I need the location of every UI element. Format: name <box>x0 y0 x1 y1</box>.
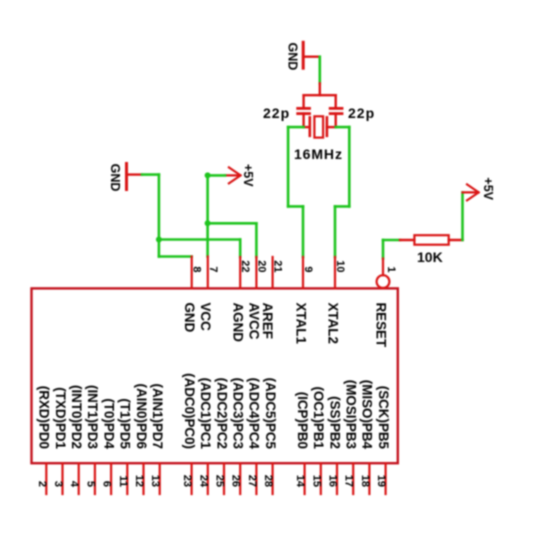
svg-text:RESET: RESET <box>373 303 388 348</box>
svg-text:16: 16 <box>327 475 339 487</box>
svg-text:4: 4 <box>68 481 80 488</box>
pin 21 stub <box>272 257 274 288</box>
pin 15 stub <box>320 463 322 494</box>
svg-text:22: 22 <box>239 260 251 272</box>
pin 24 stub <box>207 463 209 494</box>
junction dot GND net <box>156 237 162 243</box>
svg-text:1: 1 <box>385 266 397 272</box>
pin 23 stub <box>191 463 193 494</box>
junction dot +5V corner <box>205 172 211 178</box>
pin 3 stub <box>61 463 63 494</box>
svg-text:VCC: VCC <box>198 303 213 332</box>
svg-text:(ADC5)PC5: (ADC5)PC5 <box>263 378 278 450</box>
capacitor C2 22p (right) <box>330 108 342 127</box>
svg-text:(T1)PD5: (T1)PD5 <box>118 398 133 449</box>
svg-text:9: 9 <box>302 266 314 272</box>
svg-text:18: 18 <box>359 475 371 487</box>
svg-text:2: 2 <box>36 481 48 487</box>
svg-text:3: 3 <box>52 481 64 487</box>
pin 8 stub <box>191 257 193 289</box>
svg-text:(SCK)PB5: (SCK)PB5 <box>376 386 391 450</box>
pin 13 stub <box>159 463 161 494</box>
pin 26 stub <box>239 463 241 494</box>
svg-text:(ADC4)PC4: (ADC4)PC4 <box>247 378 262 450</box>
svg-text:(MOSI)PB3: (MOSI)PB3 <box>344 380 359 449</box>
svg-text:23: 23 <box>181 475 193 487</box>
pin 10 stub <box>334 257 336 288</box>
wire R1 to +5V <box>461 192 464 240</box>
pin 25 stub <box>223 463 225 494</box>
svg-text:10: 10 <box>334 260 346 272</box>
pin 5 stub <box>94 463 96 494</box>
svg-text:6: 6 <box>101 481 113 487</box>
svg-text:22p: 22p <box>348 105 375 121</box>
svg-text:(OC1)PB1: (OC1)PB1 <box>311 386 326 449</box>
svg-text:AVCC: AVCC <box>247 303 262 340</box>
svg-text:(MISO)PB4: (MISO)PB4 <box>360 380 375 450</box>
pin 14 stub <box>304 463 306 494</box>
crystal Q1 16MHz <box>304 116 336 137</box>
svg-text:26: 26 <box>230 475 242 487</box>
pin 22 stub <box>239 257 241 288</box>
pin 6 stub <box>110 463 112 494</box>
pin 16 stub <box>336 463 338 494</box>
svg-text:15: 15 <box>310 475 322 487</box>
svg-text:+5V: +5V <box>241 164 255 187</box>
svg-text:19: 19 <box>375 475 387 487</box>
svg-text:21: 21 <box>272 260 284 272</box>
capacitor C1 22p (left) <box>298 108 310 127</box>
svg-text:(INT1)PD3: (INT1)PD3 <box>85 385 100 449</box>
svg-text:13: 13 <box>149 475 161 487</box>
pin 28 stub <box>272 463 274 494</box>
svg-text:10K: 10K <box>417 249 443 265</box>
pin 11 stub <box>126 463 128 494</box>
wire crystal GND drop <box>318 57 321 84</box>
ground GND (left supply symbol) <box>108 164 142 192</box>
wire GND-left net <box>142 175 240 257</box>
wire XTAL1 net <box>288 127 304 257</box>
resistor R1 10K <box>400 235 463 245</box>
pin 27 stub <box>255 463 257 494</box>
svg-text:+5V: +5V <box>481 177 495 200</box>
svg-text:XTAL1: XTAL1 <box>293 303 308 345</box>
wire RESET net <box>383 240 400 259</box>
svg-text:(ADC0)PC0): (ADC0)PC0) <box>182 373 197 449</box>
pin 1 stub with inversion circle <box>382 259 384 276</box>
pin 19 stub <box>385 463 387 494</box>
svg-text:24: 24 <box>197 475 209 488</box>
wire XTAL2 net <box>335 127 349 257</box>
svg-text:8: 8 <box>191 266 203 272</box>
junction dot +5V branch <box>205 220 211 226</box>
pin 4 stub <box>78 463 80 494</box>
svg-text:28: 28 <box>262 475 274 487</box>
power +5V (right supply symbol) <box>463 177 496 200</box>
svg-text:20: 20 <box>255 260 267 272</box>
svg-text:27: 27 <box>246 475 258 487</box>
ground GND (crystal supply symbol) <box>286 42 320 70</box>
svg-text:XTAL2: XTAL2 <box>325 303 340 344</box>
svg-text:11: 11 <box>117 475 129 487</box>
svg-text:14: 14 <box>294 475 306 488</box>
pin 12 stub <box>142 463 144 494</box>
IC U1 body <box>32 288 398 463</box>
svg-text:5: 5 <box>84 481 96 487</box>
svg-text:AREF: AREF <box>260 303 275 339</box>
svg-text:(AIN1)PD7: (AIN1)PD7 <box>150 384 165 449</box>
svg-text:16MHz: 16MHz <box>294 146 343 162</box>
svg-text:AGND: AGND <box>231 303 246 343</box>
svg-text:(ADC1)PC1: (ADC1)PC1 <box>198 378 213 450</box>
pin 18 stub <box>368 463 370 494</box>
pin 9 stub <box>302 257 304 288</box>
svg-text:GND: GND <box>286 43 300 71</box>
svg-text:(RXD)PD0: (RXD)PD0 <box>37 386 52 449</box>
svg-text:17: 17 <box>343 475 355 487</box>
pin 17 stub <box>352 463 354 494</box>
svg-text:(ADC2)PC2: (ADC2)PC2 <box>214 378 229 449</box>
svg-text:22p: 22p <box>263 105 290 121</box>
power +5V (left supply symbol) <box>225 164 255 187</box>
svg-text:(ICP)PB0: (ICP)PB0 <box>295 392 310 449</box>
capacitor network rails <box>304 83 336 107</box>
svg-text:(AIN0)PD6: (AIN0)PD6 <box>134 384 149 449</box>
svg-text:GND: GND <box>182 303 197 333</box>
svg-text:GND: GND <box>108 164 122 192</box>
svg-text:(T0)PD4: (T0)PD4 <box>101 398 116 449</box>
svg-text:7: 7 <box>207 266 219 272</box>
svg-text:(INT0)PD2: (INT0)PD2 <box>69 385 84 449</box>
svg-text:12: 12 <box>133 475 145 487</box>
svg-text:(ADC3)PC3: (ADC3)PC3 <box>231 378 246 449</box>
pin 2 stub <box>45 463 47 494</box>
svg-text:(TXD)PD1: (TXD)PD1 <box>53 387 68 449</box>
svg-text:(SS)PB2: (SS)PB2 <box>327 396 342 449</box>
wire +5V-left net <box>208 175 257 257</box>
svg-text:25: 25 <box>214 475 226 487</box>
pin 20 stub <box>255 257 257 288</box>
pin 7 stub <box>207 257 209 289</box>
